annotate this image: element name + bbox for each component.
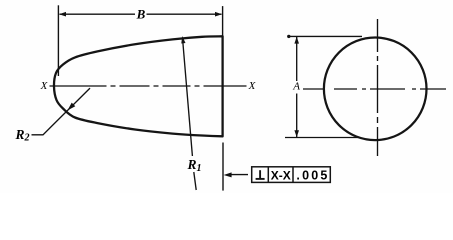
- svg-text:.005: .005: [296, 169, 329, 183]
- svg-text:B: B: [136, 6, 146, 21]
- circle end view: [324, 38, 427, 141]
- svg-text:X: X: [40, 80, 49, 92]
- centerline X-X side view: [50, 85, 247, 87]
- dimension A arrow top: [294, 37, 299, 44]
- dimension B arrow right: [215, 12, 222, 17]
- svg-text:A: A: [292, 81, 300, 93]
- feature control frame box: [252, 167, 331, 183]
- svg-text:R2: R2: [15, 127, 30, 144]
- vertical centerline end view: [377, 19, 379, 156]
- dimension B arrow left: [59, 12, 66, 17]
- dimension A arrow bottom: [294, 130, 299, 137]
- part outline side view: [54, 36, 223, 136]
- leader R2: [32, 88, 91, 135]
- dimension A extension line bottom: [285, 137, 359, 139]
- dimension B line: [60, 13, 222, 15]
- endpoint dot on top extension line: [287, 35, 290, 38]
- dimension B extension line right: [222, 6, 224, 36]
- leader R1 arrowhead: [181, 36, 185, 44]
- perpendicularity symbol: [256, 170, 265, 179]
- leader R1: [183, 38, 197, 190]
- datum extension line below part: [222, 143, 224, 191]
- leader arrowhead pointing at datum line: [224, 172, 232, 177]
- svg-text:X: X: [248, 80, 257, 92]
- dimension B extension line left: [57, 5, 59, 76]
- dimension A extension line top: [288, 35, 363, 37]
- svg-text:R1: R1: [187, 157, 202, 174]
- dimension A line: [296, 37, 298, 137]
- horizontal centerline end view: [303, 88, 446, 90]
- leader to feature control frame: [231, 174, 249, 176]
- leader R2 arrowhead: [68, 103, 76, 111]
- svg-text:X-X: X-X: [271, 169, 291, 183]
